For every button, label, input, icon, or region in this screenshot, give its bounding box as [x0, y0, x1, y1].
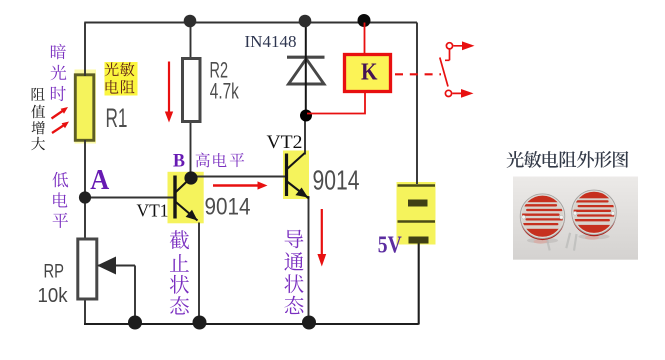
- svg-text:VT2: VT2: [267, 132, 303, 153]
- svg-text:RP: RP: [44, 262, 65, 283]
- svg-text:R1: R1: [106, 103, 128, 133]
- svg-text:9014: 9014: [205, 194, 251, 221]
- svg-text:B: B: [173, 151, 185, 172]
- svg-text:10k: 10k: [38, 285, 69, 307]
- svg-text:9014: 9014: [313, 165, 360, 196]
- svg-text:VT1: VT1: [137, 201, 169, 221]
- svg-text:IN4148: IN4148: [245, 32, 297, 51]
- svg-text:K: K: [361, 58, 378, 85]
- svg-text:A: A: [90, 165, 110, 196]
- svg-text:5V: 5V: [378, 232, 403, 258]
- svg-text:4.7k: 4.7k: [210, 79, 240, 104]
